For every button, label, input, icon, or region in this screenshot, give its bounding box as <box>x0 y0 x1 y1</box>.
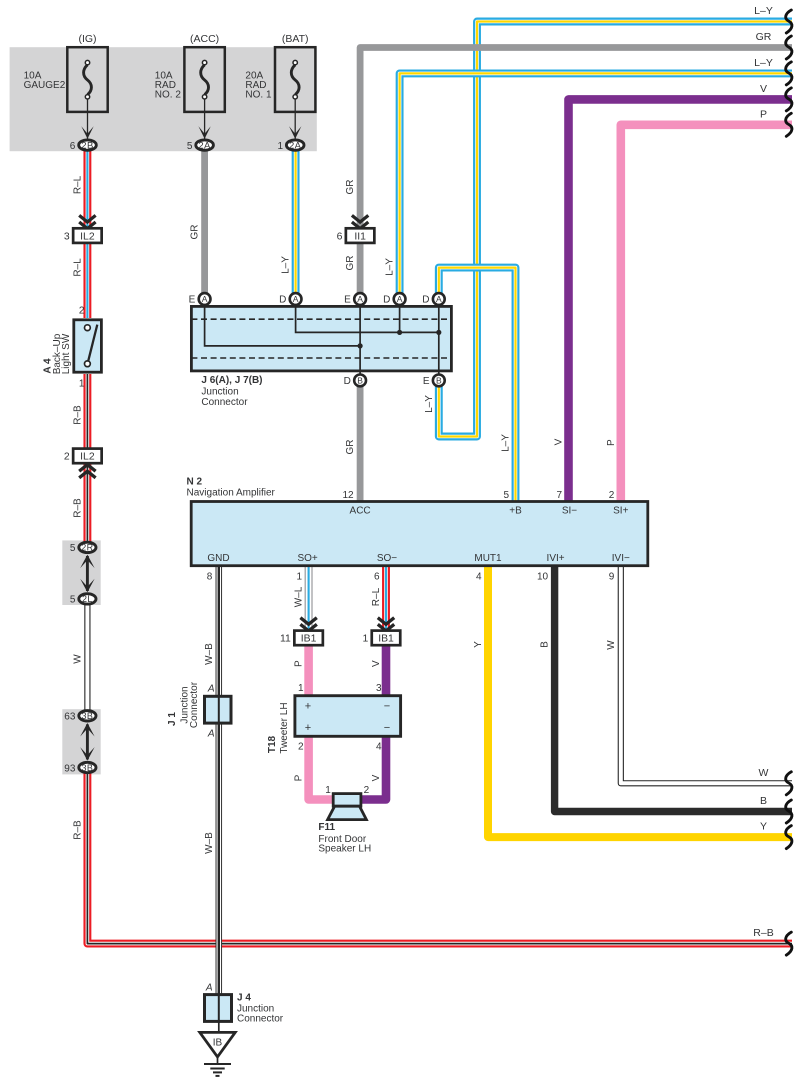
svg-text:6: 6 <box>337 231 343 242</box>
svg-text:1: 1 <box>298 683 304 694</box>
svg-text:3B: 3B <box>81 763 93 773</box>
svg-text:W: W <box>759 767 769 779</box>
svg-text:R–L: R–L <box>72 258 83 277</box>
svg-text:GR: GR <box>345 256 356 271</box>
svg-text:+B: +B <box>509 506 522 517</box>
svg-text:1: 1 <box>362 634 368 645</box>
svg-text:E: E <box>189 295 196 306</box>
svg-text:GAUGE2: GAUGE2 <box>24 80 66 91</box>
svg-text:A: A <box>293 294 299 304</box>
svg-text:10: 10 <box>537 572 549 583</box>
svg-text:NO. 2: NO. 2 <box>155 90 182 101</box>
svg-text:5: 5 <box>187 141 193 152</box>
svg-text:12: 12 <box>342 490 354 501</box>
svg-text:Y: Y <box>760 821 767 833</box>
svg-text:D: D <box>422 295 429 306</box>
svg-text:Light SW: Light SW <box>61 333 72 374</box>
svg-text:J 4: J 4 <box>237 993 251 1004</box>
svg-text:IVI+: IVI+ <box>547 553 565 564</box>
svg-text:2R: 2R <box>81 543 93 553</box>
svg-text:W: W <box>72 654 83 664</box>
svg-text:GR: GR <box>756 31 772 43</box>
svg-text:P: P <box>294 774 305 781</box>
svg-text:IB1: IB1 <box>301 634 317 645</box>
svg-text:P: P <box>606 439 617 446</box>
svg-text:−: − <box>384 722 390 734</box>
svg-text:(ACC): (ACC) <box>190 33 219 45</box>
svg-text:1: 1 <box>277 141 283 152</box>
svg-text:6: 6 <box>70 141 76 152</box>
svg-text:L–Y: L–Y <box>754 5 773 17</box>
svg-text:F11: F11 <box>318 822 335 833</box>
svg-text:B: B <box>436 376 442 386</box>
svg-text:ACC: ACC <box>350 506 371 517</box>
svg-text:GR: GR <box>345 440 356 455</box>
svg-text:3: 3 <box>376 683 382 694</box>
svg-text:2L: 2L <box>82 594 93 604</box>
svg-text:IL2: IL2 <box>80 452 95 463</box>
svg-text:63: 63 <box>64 712 76 723</box>
svg-text:Connector: Connector <box>237 1014 284 1025</box>
svg-text:SO−: SO− <box>377 553 397 564</box>
svg-text:SI+: SI+ <box>613 506 628 517</box>
svg-text:+: + <box>305 701 311 713</box>
svg-text:Navigation Amplifier: Navigation Amplifier <box>187 488 276 499</box>
svg-text:D: D <box>344 376 351 387</box>
svg-text:A: A <box>397 294 403 304</box>
svg-text:2: 2 <box>364 785 370 796</box>
svg-text:GR: GR <box>345 180 356 195</box>
svg-text:IB: IB <box>213 1038 223 1049</box>
svg-text:Connector: Connector <box>201 397 248 408</box>
svg-text:NO. 1: NO. 1 <box>245 90 272 101</box>
svg-text:B: B <box>357 376 363 386</box>
svg-text:W: W <box>606 640 617 650</box>
svg-text:W–B: W–B <box>204 832 215 854</box>
svg-text:SO+: SO+ <box>297 553 317 564</box>
svg-text:2A: 2A <box>289 140 302 151</box>
svg-text:P: P <box>294 660 305 667</box>
svg-text:4: 4 <box>376 741 382 752</box>
svg-text:2A: 2A <box>198 140 211 151</box>
svg-text:L–Y: L–Y <box>385 258 396 276</box>
svg-text:L–Y: L–Y <box>424 395 435 413</box>
svg-text:+: + <box>305 722 311 734</box>
svg-text:7: 7 <box>556 490 562 501</box>
svg-text:V: V <box>371 660 382 667</box>
svg-text:R–B: R–B <box>72 405 83 425</box>
svg-text:Junction: Junction <box>201 386 238 397</box>
svg-text:W–B: W–B <box>204 643 215 665</box>
svg-text:9: 9 <box>609 572 615 583</box>
svg-text:R–B: R–B <box>753 927 773 939</box>
svg-text:5: 5 <box>70 543 76 554</box>
svg-text:GR: GR <box>190 225 201 240</box>
svg-text:V: V <box>554 438 565 445</box>
svg-text:IVI−: IVI− <box>612 553 630 564</box>
svg-text:P: P <box>760 108 767 120</box>
svg-text:2: 2 <box>64 452 70 463</box>
svg-text:A: A <box>436 294 442 304</box>
svg-text:1: 1 <box>297 572 303 583</box>
svg-text:J 6(A), J 7(B): J 6(A), J 7(B) <box>201 375 262 386</box>
svg-text:3B: 3B <box>81 711 93 721</box>
svg-text:Y: Y <box>473 641 484 648</box>
svg-text:R–B: R–B <box>72 498 83 518</box>
svg-text:L–Y: L–Y <box>501 434 512 452</box>
svg-text:SI−: SI− <box>562 506 577 517</box>
svg-text:MUT1: MUT1 <box>474 553 502 564</box>
svg-text:A: A <box>207 728 215 739</box>
svg-text:1: 1 <box>325 785 331 796</box>
svg-text:L–Y: L–Y <box>754 57 773 69</box>
svg-text:B: B <box>540 641 551 648</box>
svg-text:GND: GND <box>207 553 229 564</box>
svg-text:L–Y: L–Y <box>281 256 292 274</box>
svg-text:II1: II1 <box>354 231 366 242</box>
svg-text:2: 2 <box>298 741 304 752</box>
svg-text:A: A <box>202 294 208 304</box>
svg-text:W–L: W–L <box>294 586 305 607</box>
svg-text:IL2: IL2 <box>80 231 95 242</box>
svg-text:Speaker LH: Speaker LH <box>318 844 371 855</box>
svg-text:Tweeter LH: Tweeter LH <box>279 702 290 753</box>
svg-text:D: D <box>383 295 390 306</box>
svg-text:93: 93 <box>64 763 76 774</box>
svg-text:1: 1 <box>79 379 85 390</box>
svg-text:11: 11 <box>280 634 291 645</box>
svg-text:5: 5 <box>503 490 509 501</box>
svg-text:A: A <box>357 294 363 304</box>
svg-text:R–L: R–L <box>371 587 382 606</box>
svg-text:(IG): (IG) <box>78 33 96 45</box>
svg-text:T18: T18 <box>267 735 278 753</box>
svg-text:V: V <box>371 774 382 781</box>
svg-text:6: 6 <box>374 572 380 583</box>
svg-text:2B: 2B <box>81 140 93 151</box>
svg-text:E: E <box>423 376 430 387</box>
svg-text:5: 5 <box>70 595 76 606</box>
svg-text:E: E <box>344 295 351 306</box>
svg-text:3: 3 <box>64 231 70 242</box>
svg-text:4: 4 <box>476 572 482 583</box>
svg-text:A: A <box>205 982 213 993</box>
svg-text:2: 2 <box>79 306 85 317</box>
svg-text:A: A <box>207 684 215 695</box>
svg-text:V: V <box>760 83 767 95</box>
svg-text:IB1: IB1 <box>378 634 394 645</box>
svg-text:R–B: R–B <box>72 820 83 840</box>
svg-text:2: 2 <box>609 490 615 501</box>
svg-text:R–L: R–L <box>72 175 83 194</box>
svg-text:(BAT): (BAT) <box>282 33 309 45</box>
svg-text:8: 8 <box>207 572 213 583</box>
svg-text:D: D <box>279 295 286 306</box>
svg-text:B: B <box>760 795 767 807</box>
svg-text:J 1: J 1 <box>167 712 178 726</box>
svg-text:−: − <box>384 701 390 713</box>
svg-text:Connector: Connector <box>189 681 200 728</box>
svg-text:N 2: N 2 <box>187 476 203 487</box>
